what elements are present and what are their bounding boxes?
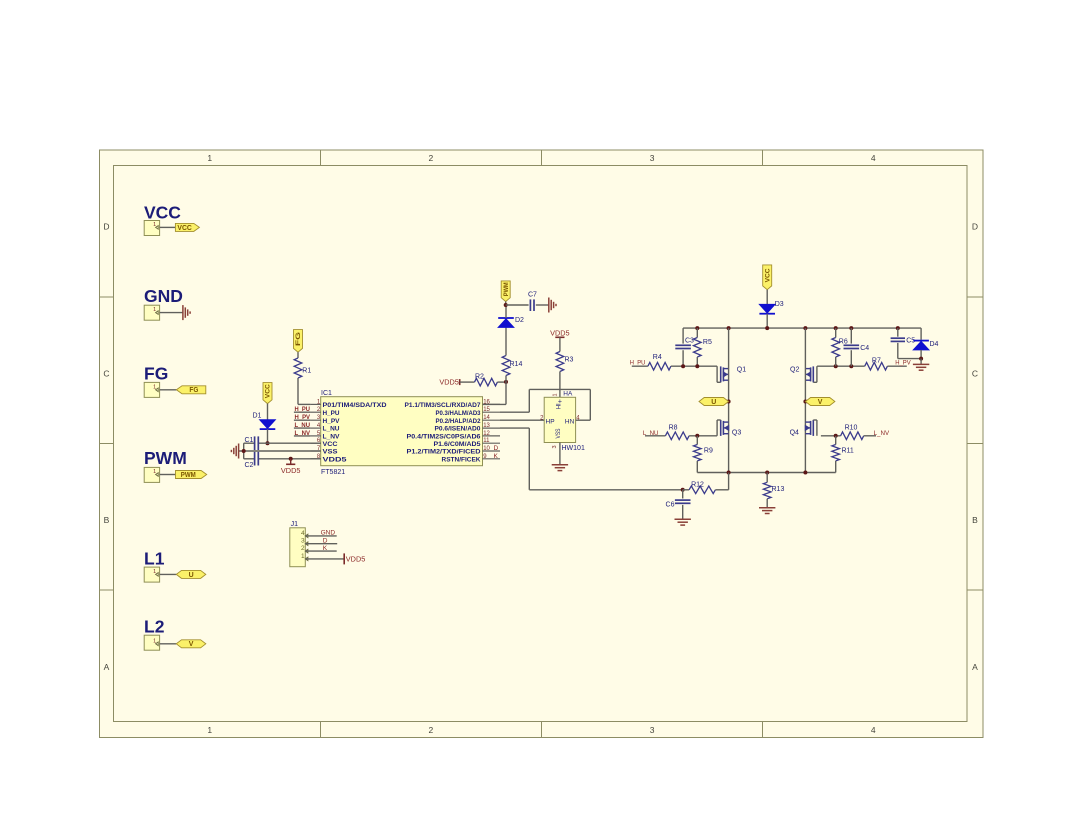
svg-text:PWM: PWM (181, 472, 196, 479)
svg-text:H_PV: H_PV (323, 418, 341, 425)
svg-text:PWM: PWM (503, 282, 510, 296)
svg-text:R5: R5 (703, 339, 712, 346)
svg-text:13: 13 (483, 423, 490, 429)
svg-text:A: A (104, 662, 110, 672)
svg-text:U: U (711, 399, 716, 406)
svg-text:HA: HA (563, 391, 573, 398)
svg-text:3: 3 (650, 153, 655, 163)
svg-text:B: B (104, 515, 110, 525)
svg-text:4: 4 (871, 725, 876, 735)
svg-text:R7: R7 (872, 357, 881, 364)
svg-text:VDD5: VDD5 (550, 330, 570, 337)
svg-text:HN: HN (565, 418, 575, 425)
svg-text:R14: R14 (510, 361, 523, 368)
svg-text:VCC: VCC (764, 268, 771, 282)
svg-text:2: 2 (429, 725, 434, 735)
svg-text:H_PU: H_PU (323, 410, 340, 417)
svg-text:VCC: VCC (144, 203, 181, 223)
svg-text:Q1: Q1 (737, 367, 746, 374)
svg-text:H_PV: H_PV (295, 414, 311, 421)
svg-text:K: K (494, 453, 499, 460)
svg-text:14: 14 (483, 415, 490, 421)
svg-text:L_NV: L_NV (874, 430, 890, 437)
svg-text:FG: FG (144, 364, 168, 384)
svg-text:D2: D2 (515, 317, 524, 324)
svg-text:1: 1 (301, 553, 305, 560)
svg-text:P0.4/TIM2S/C0PS/AD6: P0.4/TIM2S/C0PS/AD6 (407, 434, 481, 441)
svg-text:2: 2 (301, 545, 305, 552)
svg-text:Q2: Q2 (790, 367, 799, 374)
svg-text:P0.2/HALP/AD2: P0.2/HALP/AD2 (436, 418, 481, 425)
svg-text:K: K (323, 545, 328, 552)
svg-text:D1: D1 (253, 413, 262, 420)
svg-text:PWM: PWM (144, 448, 187, 468)
svg-text:C2: C2 (245, 462, 254, 469)
svg-text:HW101: HW101 (562, 445, 585, 452)
svg-text:R9: R9 (704, 448, 713, 455)
svg-text:1: 1 (207, 153, 212, 163)
svg-text:L_NV: L_NV (295, 430, 311, 437)
svg-text:VDD5: VDD5 (323, 456, 348, 463)
svg-text:L_NU: L_NU (323, 426, 340, 433)
svg-text:C4: C4 (860, 345, 869, 352)
svg-text:C: C (972, 368, 978, 378)
svg-text:R1: R1 (302, 368, 311, 375)
svg-text:R2: R2 (475, 373, 484, 380)
svg-text:D: D (972, 222, 978, 232)
svg-text:GND: GND (321, 530, 336, 537)
svg-text:RSTN/FICEK: RSTN/FICEK (442, 456, 481, 463)
svg-text:1: 1 (552, 393, 558, 396)
svg-text:VDD5: VDD5 (346, 557, 366, 564)
svg-text:P0.3/HALM/AD3: P0.3/HALM/AD3 (436, 410, 481, 417)
svg-text:Q3: Q3 (732, 429, 741, 436)
svg-text:C1: C1 (245, 437, 254, 444)
svg-text:H_PV: H_PV (895, 360, 911, 367)
svg-text:FG: FG (189, 387, 199, 394)
svg-text:C7: C7 (528, 291, 537, 298)
svg-text:R6: R6 (839, 338, 848, 345)
svg-text:R12: R12 (691, 482, 704, 489)
svg-text:HP: HP (546, 418, 555, 425)
svg-text:FG: FG (295, 332, 302, 346)
svg-text:VSS: VSS (555, 428, 562, 439)
svg-text:3: 3 (301, 538, 305, 545)
svg-text:R13: R13 (772, 486, 785, 493)
svg-text:VCC: VCC (177, 225, 191, 232)
svg-text:1: 1 (207, 725, 212, 735)
svg-text:P1.2/TIM2/TXD/FICED: P1.2/TIM2/TXD/FICED (407, 449, 481, 456)
svg-text:U: U (189, 572, 194, 579)
svg-text:D: D (103, 222, 109, 232)
svg-text:3: 3 (650, 725, 655, 735)
svg-text:IC1: IC1 (321, 390, 332, 397)
svg-text:D3: D3 (775, 301, 784, 308)
svg-text:V: V (189, 641, 194, 648)
svg-text:VDD5: VDD5 (281, 468, 301, 475)
svg-text:VCC: VCC (323, 441, 338, 448)
svg-text:HI: HI (556, 403, 562, 409)
svg-text:C: C (103, 368, 109, 378)
svg-text:12: 12 (483, 431, 490, 437)
svg-text:FT5821: FT5821 (321, 469, 345, 476)
svg-text:P01/TIM4/SDA/TXD: P01/TIM4/SDA/TXD (323, 402, 387, 409)
svg-text:GND: GND (144, 286, 183, 306)
svg-text:C6: C6 (666, 502, 675, 509)
svg-text:L_NU: L_NU (295, 422, 311, 429)
svg-text:P1.1/TIM3/SCL/RXD/AD7: P1.1/TIM3/SCL/RXD/AD7 (405, 402, 481, 409)
svg-text:L_NV: L_NV (323, 434, 341, 441)
svg-text:D: D (494, 445, 499, 452)
svg-text:VCC: VCC (265, 384, 272, 398)
svg-text:Q4: Q4 (790, 429, 799, 436)
svg-text:11: 11 (483, 438, 490, 444)
svg-text:R8: R8 (669, 424, 678, 431)
svg-text:4: 4 (871, 153, 876, 163)
svg-text:J1: J1 (291, 521, 299, 528)
svg-text:VSS: VSS (323, 449, 339, 456)
svg-text:10: 10 (483, 446, 490, 452)
svg-text:D4: D4 (930, 341, 939, 348)
svg-text:L2: L2 (144, 617, 165, 637)
svg-text:C3: C3 (685, 338, 694, 345)
svg-text:L1: L1 (144, 549, 165, 569)
svg-text:4: 4 (301, 530, 305, 537)
svg-text:R10: R10 (845, 424, 858, 431)
svg-text:R4: R4 (653, 354, 662, 361)
svg-text:D: D (323, 538, 328, 545)
svg-text:H_PU: H_PU (295, 406, 311, 413)
svg-text:R3: R3 (565, 357, 574, 364)
svg-text:P0.6/ISEN/AD0: P0.6/ISEN/AD0 (435, 426, 481, 433)
svg-text:R11: R11 (842, 448, 854, 455)
svg-text:V: V (818, 399, 823, 406)
svg-text:15: 15 (483, 407, 490, 413)
svg-text:VDD5: VDD5 (439, 379, 459, 386)
svg-text:A: A (972, 662, 978, 672)
svg-text:P1.6/C0M/AD5: P1.6/C0M/AD5 (434, 441, 481, 448)
svg-text:2: 2 (429, 153, 434, 163)
svg-text:B: B (972, 515, 978, 525)
svg-text:3: 3 (552, 445, 558, 448)
